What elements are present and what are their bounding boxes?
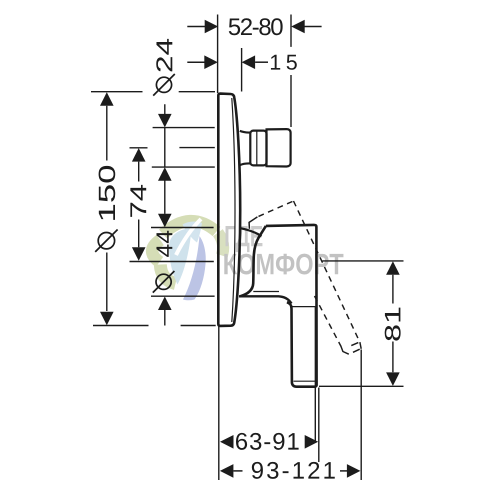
extension line x=315.3 below grip — [314, 388, 316, 444]
block and grip outline — [266, 225, 317, 387]
label 81 — [385, 308, 401, 341]
dashed lever tip cap — [341, 342, 362, 354]
sleeve bottom edge — [239, 296, 292, 303]
tick y=91.6 top left — [91, 91, 215, 93]
plate inner front line — [232, 98, 235, 322]
lever sleeve and pivot block — [239, 217, 317, 387]
escutcheon plate outline — [218, 94, 240, 326]
lever end cap solid hook — [249, 217, 257, 229]
dimension 15 — [187, 55, 268, 69]
label D150 — [99, 166, 116, 220]
tick y=127.6 knob top — [153, 127, 215, 129]
knob body — [267, 129, 291, 166]
dimension 74 — [132, 148, 146, 261]
tick y=227.5 sleeve top — [151, 227, 214, 229]
grip inner front line — [314, 307, 316, 386]
lever alternate position dashed — [259, 201, 361, 346]
label D24 — [156, 39, 172, 71]
tick y=296.2 sleeve bottom — [151, 295, 215, 297]
watermark text KOMFORT — [224, 254, 343, 275]
tick y=386.3 right grip bottom — [319, 385, 404, 387]
extension line x=318.8 below grip — [318, 388, 320, 463]
block left edge / sleeve profile — [240, 226, 266, 297]
knob ring — [250, 131, 266, 166]
label 15 — [271, 55, 297, 70]
extension line x=241 (15mm) — [241, 48, 243, 92]
label 52-80 — [229, 18, 283, 35]
block bottom front edge — [253, 291, 279, 293]
dimension D44 — [158, 297, 172, 326]
dimension 81 — [386, 261, 400, 386]
tick y=167 knob bottom — [152, 166, 215, 168]
label 74 — [130, 185, 146, 217]
wall extension line top — [217, 15, 219, 94]
watermark text GDE — [226, 226, 263, 252]
label D44 — [156, 231, 172, 257]
tick y=325.5 bottom of plate — [93, 325, 216, 327]
extension line x=291 (52-80) — [290, 15, 292, 128]
check knob neck — [240, 129, 291, 166]
grip bottom inner line — [294, 380, 316, 382]
dimension 52-80 — [187, 20, 321, 34]
knob ring inner line — [256, 131, 258, 165]
label 63-91 — [236, 433, 299, 450]
dimension D24 — [158, 104, 172, 227]
extension line x=360.8 dashed lever tip — [360, 350, 362, 481]
tick y=260.9 right lever axis — [322, 260, 403, 262]
dimension 63-91 — [220, 435, 318, 449]
dimension D150 — [100, 92, 114, 325]
label 93-121 — [252, 462, 335, 479]
tick y=147.6 knob axis — [130, 147, 215, 149]
watermark logo — [152, 219, 223, 300]
tick y=261.5 lever axis — [130, 261, 214, 263]
dimension 93-121 — [220, 464, 361, 478]
wall extension line bottom — [218, 327, 220, 481]
sleeve top edge — [241, 228, 262, 236]
grip cap inner line — [292, 306, 316, 308]
